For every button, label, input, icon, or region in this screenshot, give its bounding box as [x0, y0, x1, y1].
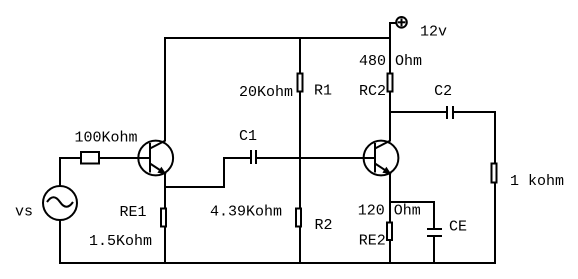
svg-text:vs: vs [15, 204, 33, 221]
wire 12V stub [390, 23, 397, 38]
svg-text:RC2: RC2 [359, 83, 386, 100]
svg-text:C1: C1 [239, 128, 257, 145]
wire Q2 emitter down through RE2 to ground [389, 173, 391, 264]
capacitor CE [427, 229, 442, 236]
svg-text:12v: 12v [420, 24, 447, 41]
transistor Q1 base bar [149, 143, 151, 173]
wire R1 branch vertical (rail to divider junction) [299, 37, 301, 159]
wire top supply rail [164, 37, 391, 39]
wire load branch vertical [494, 111, 496, 264]
svg-text:R2: R2 [315, 217, 333, 234]
resistor RE1 [161, 209, 166, 227]
resistor 1 kohm (load) [491, 163, 496, 182]
wire Q1 collector to rail [164, 37, 166, 141]
wire base into Q1 [81, 157, 151, 159]
svg-text:RE1: RE1 [120, 204, 147, 221]
svg-text:R1: R1 [314, 82, 332, 99]
transistor Q2 base bar [374, 143, 376, 173]
capacitor C2 [447, 106, 453, 119]
wire C2 to load branch [454, 111, 496, 113]
wire CE to ground rail [433, 236, 435, 264]
resistor R2 [296, 209, 301, 227]
wire Q1 emitter link to C1 [164, 158, 250, 187]
wire Q1 emitter down through RE1 to ground [164, 173, 166, 264]
resistor 100Kohm (source resistor) [81, 152, 99, 164]
svg-text:1.5Kohm: 1.5Kohm [89, 233, 152, 250]
12V supply plus terminal [396, 17, 407, 28]
wire R2 branch vertical (junction to ground) [299, 157, 301, 264]
transistor Q2 [364, 141, 399, 176]
svg-text:1 kohm: 1 kohm [510, 173, 564, 190]
svg-text:RE2: RE2 [359, 233, 386, 250]
resistor RC2 [387, 73, 392, 91]
svg-text:480 Ohm: 480 Ohm [359, 53, 422, 70]
svg-text:100Kohm: 100Kohm [75, 130, 138, 147]
resistor R1 [298, 73, 303, 91]
wire RC2 branch vertical (rail to Q2 collector) [389, 37, 391, 141]
wire vs top to base corner [60, 158, 81, 186]
svg-text:C2: C2 [434, 83, 452, 100]
wire Q2 emitter link to CE [389, 202, 434, 228]
capacitor C1 [251, 150, 256, 164]
voltage source vs [43, 186, 77, 220]
svg-text:120 Ohm: 120 Ohm [358, 203, 421, 220]
resistor RE2 [387, 223, 392, 241]
wire vs bottom to ground rail [59, 220, 61, 264]
wire bottom ground rail [59, 262, 496, 264]
svg-text:4.39Kohm: 4.39Kohm [210, 204, 282, 221]
svg-text:20Kohm: 20Kohm [239, 84, 293, 101]
transistor Q1 [138, 141, 173, 176]
svg-text:CE: CE [449, 218, 467, 235]
wire C1 to divider junction to Q2 base [257, 157, 375, 159]
wire collector node to C2 [390, 111, 446, 113]
